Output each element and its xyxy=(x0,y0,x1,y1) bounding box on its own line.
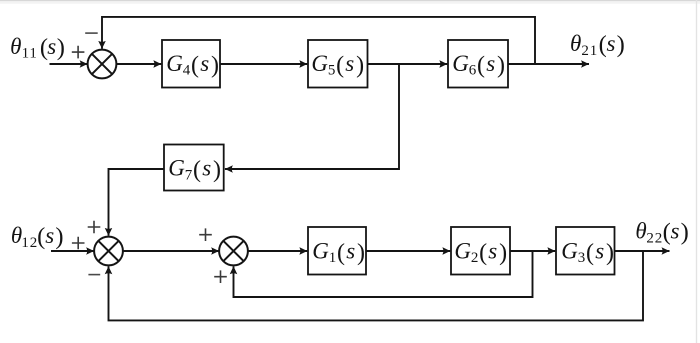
svg-text:(: ( xyxy=(479,240,487,266)
svg-text:(: ( xyxy=(336,52,344,78)
wire feedback top: tap after G6 up and left into S1 xyxy=(102,17,535,64)
svg-text:s: s xyxy=(345,51,354,76)
svg-text:s: s xyxy=(671,219,680,244)
label theta12(s) xyxy=(11,223,64,251)
svg-text:s: s xyxy=(607,31,616,56)
wire inner feedback: tap after G2 down, left, up into SB xyxy=(234,251,533,297)
svg-text:G: G xyxy=(311,51,328,76)
svg-text:3: 3 xyxy=(578,250,586,266)
svg-text:θ: θ xyxy=(570,31,581,56)
svg-text:(: ( xyxy=(586,240,594,266)
summing junction SB xyxy=(219,237,248,266)
svg-text:): ) xyxy=(497,52,505,78)
svg-text:(: ( xyxy=(477,52,485,78)
svg-text:): ) xyxy=(213,157,221,183)
svg-text:5: 5 xyxy=(328,63,336,79)
wire G4 to G5 xyxy=(220,63,307,65)
wire G2 to G3 with tap node xyxy=(510,250,555,252)
sign minus above S1 xyxy=(85,32,98,34)
label theta22(s) xyxy=(635,219,688,247)
label theta11(s) xyxy=(10,34,65,62)
label theta21(s) xyxy=(570,31,625,59)
svg-text:6: 6 xyxy=(469,63,477,79)
svg-text:7: 7 xyxy=(185,167,193,183)
wire tap between G5 and G6 down to G7 xyxy=(225,64,399,169)
svg-text:θ: θ xyxy=(635,219,646,244)
svg-text:s: s xyxy=(47,34,56,59)
block G7 xyxy=(164,145,224,191)
svg-text:): ) xyxy=(211,52,219,78)
svg-text:θ: θ xyxy=(10,34,21,59)
svg-text:): ) xyxy=(617,31,625,58)
svg-text:12: 12 xyxy=(21,235,38,251)
wire outer feedback: tap after G3 down, left, up into SA xyxy=(109,251,644,320)
wire SA to SB xyxy=(123,250,219,252)
block G1 xyxy=(308,227,366,275)
sign plus above SA xyxy=(88,221,101,234)
block G2 xyxy=(451,227,510,275)
wire input theta12 xyxy=(51,250,94,252)
svg-text:s: s xyxy=(202,156,211,181)
svg-text:): ) xyxy=(356,52,364,78)
svg-text:s: s xyxy=(488,239,497,264)
svg-text:s: s xyxy=(45,223,54,248)
wire G5 to G6 with tap node xyxy=(368,63,448,65)
svg-text:s: s xyxy=(486,51,495,76)
svg-text:G: G xyxy=(312,239,329,264)
svg-text:): ) xyxy=(357,240,365,266)
svg-text:2: 2 xyxy=(471,250,479,266)
wire G7 output left and down into SA xyxy=(109,169,165,236)
svg-text:21: 21 xyxy=(581,43,598,59)
wire S1 to G4 xyxy=(116,63,161,65)
svg-text:s: s xyxy=(595,239,604,264)
sign plus below-left SB xyxy=(214,270,227,283)
svg-text:G: G xyxy=(561,239,578,264)
svg-text:): ) xyxy=(55,223,63,250)
svg-text:22: 22 xyxy=(646,231,663,247)
wire G3 output to theta22 xyxy=(615,250,670,252)
sign plus at theta12 input xyxy=(72,237,85,250)
svg-text:1: 1 xyxy=(329,250,337,266)
svg-text:(: ( xyxy=(193,157,201,183)
svg-text:): ) xyxy=(606,240,614,266)
svg-text:s: s xyxy=(200,51,209,76)
svg-text:): ) xyxy=(499,240,507,266)
svg-text:G: G xyxy=(454,239,471,264)
block G5 xyxy=(308,40,368,88)
summing junction S1 xyxy=(88,50,117,79)
summing junction SA xyxy=(94,237,123,266)
svg-text:s: s xyxy=(346,239,355,264)
svg-text:G: G xyxy=(166,51,183,76)
svg-text:11: 11 xyxy=(22,46,38,62)
sign minus below SA xyxy=(88,274,100,276)
svg-text:G: G xyxy=(452,51,469,76)
block G6 xyxy=(448,40,508,88)
wire G6 output to theta21 xyxy=(508,63,589,65)
svg-text:(: ( xyxy=(191,52,199,78)
sign plus at theta11 input xyxy=(72,46,85,59)
sign plus above-left SB xyxy=(199,228,212,241)
svg-text:(: ( xyxy=(37,223,45,250)
wire G1 to G2 xyxy=(366,250,450,252)
svg-text:): ) xyxy=(57,34,65,61)
svg-text:G: G xyxy=(168,156,185,181)
wire SB to G1 xyxy=(248,250,307,252)
block G3 xyxy=(556,227,615,275)
svg-text:): ) xyxy=(681,219,689,246)
frame top border xyxy=(0,0,700,4)
wire input theta11 xyxy=(50,63,88,65)
block G4 xyxy=(162,40,220,88)
svg-text:4: 4 xyxy=(183,63,191,79)
svg-text:(: ( xyxy=(337,240,345,266)
frame right border xyxy=(696,0,697,343)
